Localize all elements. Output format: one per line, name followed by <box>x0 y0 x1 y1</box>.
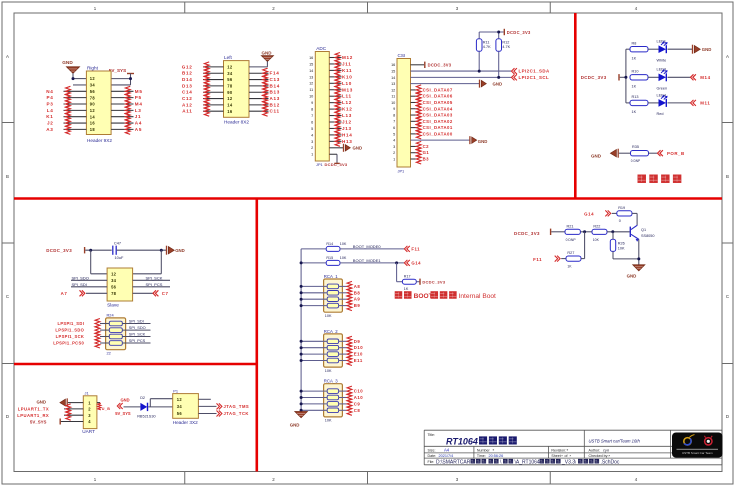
port B14 <box>263 81 280 91</box>
svg-text:B13: B13 <box>270 90 281 95</box>
port J12 <box>335 117 352 127</box>
junction bus RCA_2 pin 2 <box>300 346 303 349</box>
wire RCA_2 out E11 <box>339 360 348 362</box>
header J3 Left Header 8X2 <box>224 55 250 124</box>
wire CSI pin 8 <box>411 114 418 116</box>
svg-text:A9: A9 <box>354 297 361 302</box>
wire CSI pin 13 to GND <box>411 83 480 85</box>
logo USTB smart car team <box>672 433 723 458</box>
svg-text:GND: GND <box>36 400 46 405</box>
svg-text:JTAG_TCK: JTAG_TCK <box>224 411 249 416</box>
svg-text:J1: J1 <box>135 114 142 119</box>
wire Q1 emitter to ground <box>638 239 640 264</box>
wire bus to RCA_1 pin 2 <box>301 292 327 294</box>
svg-text:SPI_SDI: SPI_SDI <box>72 282 87 287</box>
svg-text:12: 12 <box>227 65 233 70</box>
resistor R19 0 <box>617 206 632 223</box>
svg-text:12: 12 <box>90 108 96 113</box>
svg-text:R21: R21 <box>567 224 574 228</box>
wire bus to RCA_3 pin 4 <box>301 409 327 411</box>
wire ADC pin 7 <box>329 115 341 117</box>
svg-text:H14: H14 <box>342 132 353 137</box>
svg-text:Header 9X2: Header 9X2 <box>87 138 112 143</box>
svg-text:K12: K12 <box>342 107 353 112</box>
svg-text:SPI_SCK: SPI_SCK <box>146 275 163 280</box>
svg-text:10uF: 10uF <box>115 255 124 260</box>
svg-text:16: 16 <box>90 121 96 126</box>
wire bus to RCA_2 pin 2 <box>301 347 327 349</box>
port B12 <box>263 100 280 110</box>
wire J2 pin row K1 <box>64 116 134 118</box>
svg-text:BOOT_MODE1: BOOT_MODE1 <box>353 258 382 263</box>
resistor R21 0 DNP <box>565 224 580 242</box>
power DCDC_3V3 CSI pin 16 <box>425 62 452 68</box>
power DCDC_3V3 R17 <box>416 279 446 285</box>
svg-text:16: 16 <box>227 109 233 114</box>
svg-text:JTAG_TMS: JTAG_TMS <box>224 404 250 409</box>
junction C47 left <box>89 249 92 252</box>
svg-text:C14: C14 <box>182 90 193 95</box>
svg-text:B: B <box>6 174 9 179</box>
port P4 <box>46 93 70 103</box>
title text RT1064 <box>428 433 517 446</box>
wire C47 to GND <box>117 249 167 251</box>
resistor network R24 22 <box>106 312 126 355</box>
wire SPI_PCS <box>133 282 170 287</box>
svg-text:56: 56 <box>90 89 96 94</box>
wire P1 pin2 stub <box>198 398 210 400</box>
port K10 <box>335 72 352 82</box>
svg-text:DCDC_3V3: DCDC_3V3 <box>507 30 531 35</box>
svg-text:90: 90 <box>227 90 233 95</box>
svg-text:Q1: Q1 <box>641 228 646 232</box>
title block <box>424 430 722 465</box>
wire D2 to P1 <box>148 399 173 407</box>
svg-text:ADC: ADC <box>316 46 327 51</box>
svg-text:Size:: Size: <box>428 448 436 452</box>
wire SPI_SDO <box>122 325 150 330</box>
wire bus to RCA_2 pin 1 <box>301 340 327 342</box>
svg-text:L11: L11 <box>342 94 352 99</box>
wire J2 pin row J2 <box>64 122 134 124</box>
svg-text:6: 6 <box>311 120 313 124</box>
port D9 <box>347 336 360 346</box>
wire J2 pin row A3 <box>64 128 134 130</box>
svg-text:16: 16 <box>309 56 313 60</box>
port A7 <box>61 290 107 296</box>
wire J3 pin row A11 <box>203 110 224 112</box>
svg-text:J11: J11 <box>342 61 352 66</box>
port E11 <box>347 356 363 366</box>
wire J2 pin row P4 <box>64 97 134 99</box>
wire ADC pin 8 <box>329 108 341 110</box>
svg-text:DCDC_3V3: DCDC_3V3 <box>514 231 540 236</box>
svg-text:10: 10 <box>309 95 313 99</box>
svg-text:1K: 1K <box>632 57 637 61</box>
wire RCA_1 out A9 <box>339 298 348 300</box>
svg-text:10K: 10K <box>325 369 332 373</box>
svg-text:B8: B8 <box>354 290 361 295</box>
svg-text:A11: A11 <box>182 109 192 114</box>
port A10 <box>347 393 363 403</box>
wire J2 pin row N4 <box>64 90 134 92</box>
svg-text:Green: Green <box>657 86 668 90</box>
port A8 <box>347 281 360 291</box>
junction bus RCA_3 pin 3 <box>300 402 303 405</box>
svg-text:SPI_SDI: SPI_SDI <box>129 319 144 324</box>
junction bus RCA_3 pin 4 <box>300 409 303 412</box>
svg-text:11: 11 <box>391 95 395 99</box>
junction bus R15 <box>300 261 303 264</box>
svg-text:M12: M12 <box>342 55 353 60</box>
svg-text:Title:: Title: <box>428 433 435 437</box>
svg-text:34: 34 <box>177 404 183 409</box>
svg-text:LPSPI1_SDI: LPSPI1_SDI <box>57 321 84 326</box>
port P3 <box>46 99 70 109</box>
port CSI_DATA00 <box>416 129 452 139</box>
svg-text:14: 14 <box>309 69 313 73</box>
wire R8 to LED1 <box>648 48 659 50</box>
svg-text:13: 13 <box>309 75 313 79</box>
junction bus RCA_3 pin 1 <box>300 390 303 393</box>
wire ADC pin 9 <box>329 102 341 104</box>
svg-text:LPI2C1_SDA: LPI2C1_SDA <box>519 69 550 74</box>
svg-text:56: 56 <box>177 411 183 416</box>
port LPSPI1_SDI <box>57 319 109 329</box>
port CSI_DATA06 <box>416 91 452 101</box>
port M5 <box>125 86 142 96</box>
port D13 <box>182 81 209 91</box>
junction bus RCA_2 pin 3 <box>300 353 303 356</box>
port B3 <box>416 154 429 164</box>
svg-text:4: 4 <box>393 139 395 143</box>
svg-text:B14: B14 <box>270 83 281 88</box>
svg-text:Author:: Author: <box>589 448 601 452</box>
junction bus RCA_1 pin 3 <box>300 298 303 301</box>
svg-text:Number: Number <box>477 448 491 452</box>
svg-text:LPUART1_RX: LPUART1_RX <box>17 413 49 418</box>
port C11 <box>263 106 280 116</box>
svg-text:D10: D10 <box>354 345 363 350</box>
wire bus to RCA_2 pin 4 <box>301 360 327 362</box>
wire ADC pin 2 <box>329 147 343 149</box>
svg-text:White: White <box>657 58 667 62</box>
ground ADC pin 2 <box>344 144 363 152</box>
svg-text:K1: K1 <box>46 114 53 119</box>
svg-text:RCA_1: RCA_1 <box>324 274 338 279</box>
svg-text:P4: P4 <box>46 95 53 100</box>
wire J3 pin row B14 <box>249 85 269 87</box>
svg-text:DCDC_3V3: DCDC_3V3 <box>422 280 445 285</box>
svg-text:12: 12 <box>391 88 395 92</box>
svg-text:B12: B12 <box>270 102 281 107</box>
port M13 <box>335 85 353 95</box>
wire RCA_3 out C10 <box>339 390 348 392</box>
wire ADC pin 15 <box>329 63 341 65</box>
wire bus to RCA_1 pin 4 <box>301 305 327 307</box>
wire CSI pin 1 <box>411 158 418 160</box>
wire CSI pin 12 <box>411 89 418 91</box>
wire SPI_PCS <box>122 338 150 343</box>
port POR_B <box>658 150 685 156</box>
svg-text:2021/7/4: 2021/7/4 <box>439 454 454 458</box>
svg-text:10K: 10K <box>325 419 332 423</box>
wire slave power rails <box>91 250 162 274</box>
power DCDC_3V3 ADC pin 1 <box>316 162 348 167</box>
svg-text:10K: 10K <box>593 238 600 242</box>
port J13 <box>335 123 352 133</box>
svg-text:13: 13 <box>391 82 395 86</box>
red divider horizontal line left <box>14 363 257 366</box>
svg-text:K10: K10 <box>342 74 353 79</box>
svg-text:R13: R13 <box>632 95 639 99</box>
port F14 <box>263 68 280 78</box>
wire R19 to Q1 collector <box>632 213 637 225</box>
svg-text:14: 14 <box>90 114 96 119</box>
svg-text:SPI_PCS: SPI_PCS <box>146 282 163 287</box>
svg-text:GND: GND <box>478 139 488 144</box>
wire CSI pin 16 <box>411 64 425 66</box>
transistor Q1 SS8050 <box>630 225 655 242</box>
svg-text:GND: GND <box>62 60 73 65</box>
wire J3 pin row C13 <box>249 79 269 81</box>
svg-text:GND: GND <box>591 154 602 159</box>
svg-text:USTB Smart car/Team 16th: USTB Smart car/Team 16th <box>589 439 641 444</box>
port C14 <box>182 87 209 97</box>
svg-text:CSI: CSI <box>398 53 406 58</box>
wire J3 pin row A13 <box>249 98 269 100</box>
svg-text:F14: F14 <box>270 71 280 76</box>
label reset button chinese <box>638 175 682 183</box>
svg-text:5: 5 <box>311 127 313 131</box>
svg-text:Slave: Slave <box>107 302 119 307</box>
wire J3 pin row G12 <box>203 66 224 68</box>
wire bus to RCA_3 pin 2 <box>301 397 327 399</box>
svg-text:BOOT_MODE0: BOOT_MODE0 <box>353 244 382 249</box>
svg-text:4.7K: 4.7K <box>502 45 510 49</box>
capacitor C47 10uF <box>113 241 124 260</box>
svg-text:J2: J2 <box>47 121 54 126</box>
svg-text:Checked by:: Checked by: <box>589 454 609 458</box>
svg-text:SPI_PCS: SPI_PCS <box>129 338 146 343</box>
port A12 <box>182 100 209 110</box>
svg-text:1K: 1K <box>404 287 409 291</box>
svg-text:R12: R12 <box>502 40 509 44</box>
wire RCA_3 out A10 <box>339 397 348 399</box>
port E10 <box>347 349 363 359</box>
svg-text:L4: L4 <box>47 108 54 113</box>
svg-text:CSI_DATA04: CSI_DATA04 <box>423 106 453 111</box>
svg-text:CSI_DATA06: CSI_DATA06 <box>423 94 453 99</box>
svg-text:CSI_DATA00: CSI_DATA00 <box>423 131 453 136</box>
svg-text:L10: L10 <box>342 81 352 86</box>
power 5V_SYS UART pin4 <box>30 419 83 425</box>
svg-text:8: 8 <box>393 113 395 117</box>
wire SPI_SDI <box>122 319 150 324</box>
port G1 <box>416 148 429 158</box>
wire LED rail vertical <box>626 49 630 103</box>
wire R26 leads <box>613 232 639 259</box>
header J1 UART <box>82 390 97 434</box>
svg-text:34: 34 <box>111 278 117 283</box>
resistor R27 1K <box>566 251 581 269</box>
wire ADC pin 1 <box>329 154 337 163</box>
port CSI_DATA07 <box>416 85 452 95</box>
svg-text:1K: 1K <box>632 110 637 114</box>
port N4 <box>46 86 70 96</box>
svg-text:9: 9 <box>393 107 395 111</box>
svg-text:2: 2 <box>393 151 395 155</box>
ground boot bus <box>290 412 308 428</box>
svg-text:D2: D2 <box>140 396 145 400</box>
wire ADC pin 14 <box>329 69 341 71</box>
svg-text:Header 8X2: Header 8X2 <box>224 119 249 124</box>
svg-text:C2: C2 <box>423 144 430 149</box>
wire CSI pin 3 <box>411 145 418 147</box>
wire LED1 to GND <box>668 48 693 50</box>
power GND J3 <box>249 50 273 67</box>
header JP1 CSI <box>391 53 410 173</box>
junction bus RCA_1 pin 1 <box>300 285 303 288</box>
svg-text:10K: 10K <box>325 314 332 318</box>
svg-text:A8: A8 <box>354 284 361 289</box>
red divider horizontal line full width <box>14 197 722 200</box>
svg-text:10K: 10K <box>618 246 625 250</box>
svg-text:C9: C9 <box>354 401 361 406</box>
wire boot bus <box>300 249 302 412</box>
LED LED4 Red <box>657 93 668 116</box>
LED LED3 Green <box>657 68 668 91</box>
port CSI_DATA05 <box>416 98 452 108</box>
svg-text:M14: M14 <box>700 75 710 80</box>
svg-text:A4: A4 <box>444 448 450 453</box>
power 5V_SYS J2 right <box>109 68 134 85</box>
svg-text:CSI_DATA02: CSI_DATA02 <box>423 119 453 124</box>
port GND JTAG <box>117 398 129 409</box>
wire bus to RCA_1 pin 3 <box>301 298 327 300</box>
port D14 <box>182 75 209 85</box>
wire J3 pin row C14 <box>203 91 224 93</box>
wire CSI pin 2 <box>411 152 418 154</box>
svg-text:LPUART1_TX: LPUART1_TX <box>18 407 50 412</box>
svg-text:JP1: JP1 <box>316 162 323 167</box>
svg-text:14: 14 <box>391 76 395 80</box>
wire RCA_3 out C9 <box>339 403 348 405</box>
port J11 <box>335 59 351 69</box>
wire ADC pin 3 <box>329 140 341 142</box>
svg-text:J1: J1 <box>85 390 89 395</box>
port LPSPI1_SCK <box>56 332 110 342</box>
svg-text:12: 12 <box>90 76 96 81</box>
svg-text:M11: M11 <box>700 101 710 106</box>
wire RCA_2 out E10 <box>339 353 348 355</box>
port LPUART1_TX <box>18 404 84 414</box>
svg-text:Right: Right <box>87 66 99 71</box>
port F11 boot <box>404 246 420 252</box>
svg-text:U_B: U_B <box>102 407 111 411</box>
port D10 <box>347 343 363 353</box>
port A5 <box>125 124 142 134</box>
svg-text:C10: C10 <box>354 389 363 394</box>
svg-text:D:\SMARTCARS\: D:\SMARTCARS\ <box>436 459 476 465</box>
svg-text:C11: C11 <box>270 109 280 114</box>
svg-text:11: 11 <box>309 88 313 92</box>
junction J2 pin1 <box>72 77 75 80</box>
wire J3 pin row C12 <box>203 98 224 100</box>
port C7 <box>133 290 169 296</box>
svg-text:10K: 10K <box>340 242 347 246</box>
wire CSI pin 6 <box>411 127 418 129</box>
svg-text:E11: E11 <box>354 358 363 363</box>
svg-text:G14: G14 <box>584 212 594 217</box>
resistor R26 10K <box>610 239 625 251</box>
svg-text:D13: D13 <box>182 83 193 88</box>
resistor R22 10K <box>592 224 607 242</box>
svg-text:DCDC_3V3: DCDC_3V3 <box>428 63 452 68</box>
resistor R13 1K <box>630 95 648 114</box>
svg-text:R24: R24 <box>107 312 115 317</box>
svg-text:SPI_SCK: SPI_SCK <box>129 332 146 337</box>
port L11 <box>335 91 352 101</box>
port M12 <box>335 53 353 63</box>
svg-text:\A_RT1064: \A_RT1064 <box>515 459 540 465</box>
wire J3 pin row F14 <box>249 72 269 74</box>
junction bus RCA_3 pin 2 <box>300 396 303 399</box>
wire CSI pin 5 <box>411 133 418 135</box>
header P1 Header 3X2 <box>173 388 199 424</box>
port G14 boot <box>404 260 421 266</box>
port L4 <box>47 105 71 115</box>
svg-text:GND: GND <box>262 50 273 55</box>
svg-text:2: 2 <box>311 146 313 150</box>
red divider vertical line bottom <box>255 199 258 472</box>
svg-text:C12: C12 <box>182 96 193 101</box>
svg-text:R10: R10 <box>632 70 639 74</box>
wire bus to RCA_2 pin 3 <box>301 353 327 355</box>
port JTAG_TCK <box>217 411 249 417</box>
resistor R10 1K <box>630 70 648 89</box>
ground Q1 emitter <box>627 265 645 279</box>
port A13 <box>263 94 280 104</box>
port LPI2C1_SCL <box>512 74 550 80</box>
svg-text:GND: GND <box>627 273 637 278</box>
port K12 <box>335 104 352 114</box>
wire J2 pin row L4 <box>64 109 134 111</box>
svg-text:15: 15 <box>391 69 395 73</box>
wire RCA_2 out D10 <box>339 347 348 349</box>
svg-text:D14: D14 <box>182 77 193 82</box>
port A4 <box>125 118 142 128</box>
junction emitter R26 <box>637 257 640 260</box>
svg-text:G14: G14 <box>411 261 421 266</box>
svg-text:R27: R27 <box>567 251 574 255</box>
wire ADC pin 5 <box>329 127 341 129</box>
svg-text:A: A <box>726 54 729 59</box>
wire pullup tops <box>479 32 503 39</box>
title block fields <box>428 448 572 459</box>
svg-text:UART: UART <box>82 429 95 434</box>
svg-text:DCDC_3V3: DCDC_3V3 <box>46 248 72 253</box>
resistor R12 4.7K <box>496 39 511 52</box>
svg-text:C7: C7 <box>162 291 169 296</box>
svg-text:6: 6 <box>393 126 395 130</box>
wire ADC pin 10 <box>329 95 341 97</box>
wire SPI_SCK <box>133 275 170 280</box>
wire RCA_1 out B9 <box>339 305 348 307</box>
svg-text:Left: Left <box>224 55 233 60</box>
svg-text:K11: K11 <box>342 68 352 73</box>
svg-text:LED4: LED4 <box>657 93 667 97</box>
